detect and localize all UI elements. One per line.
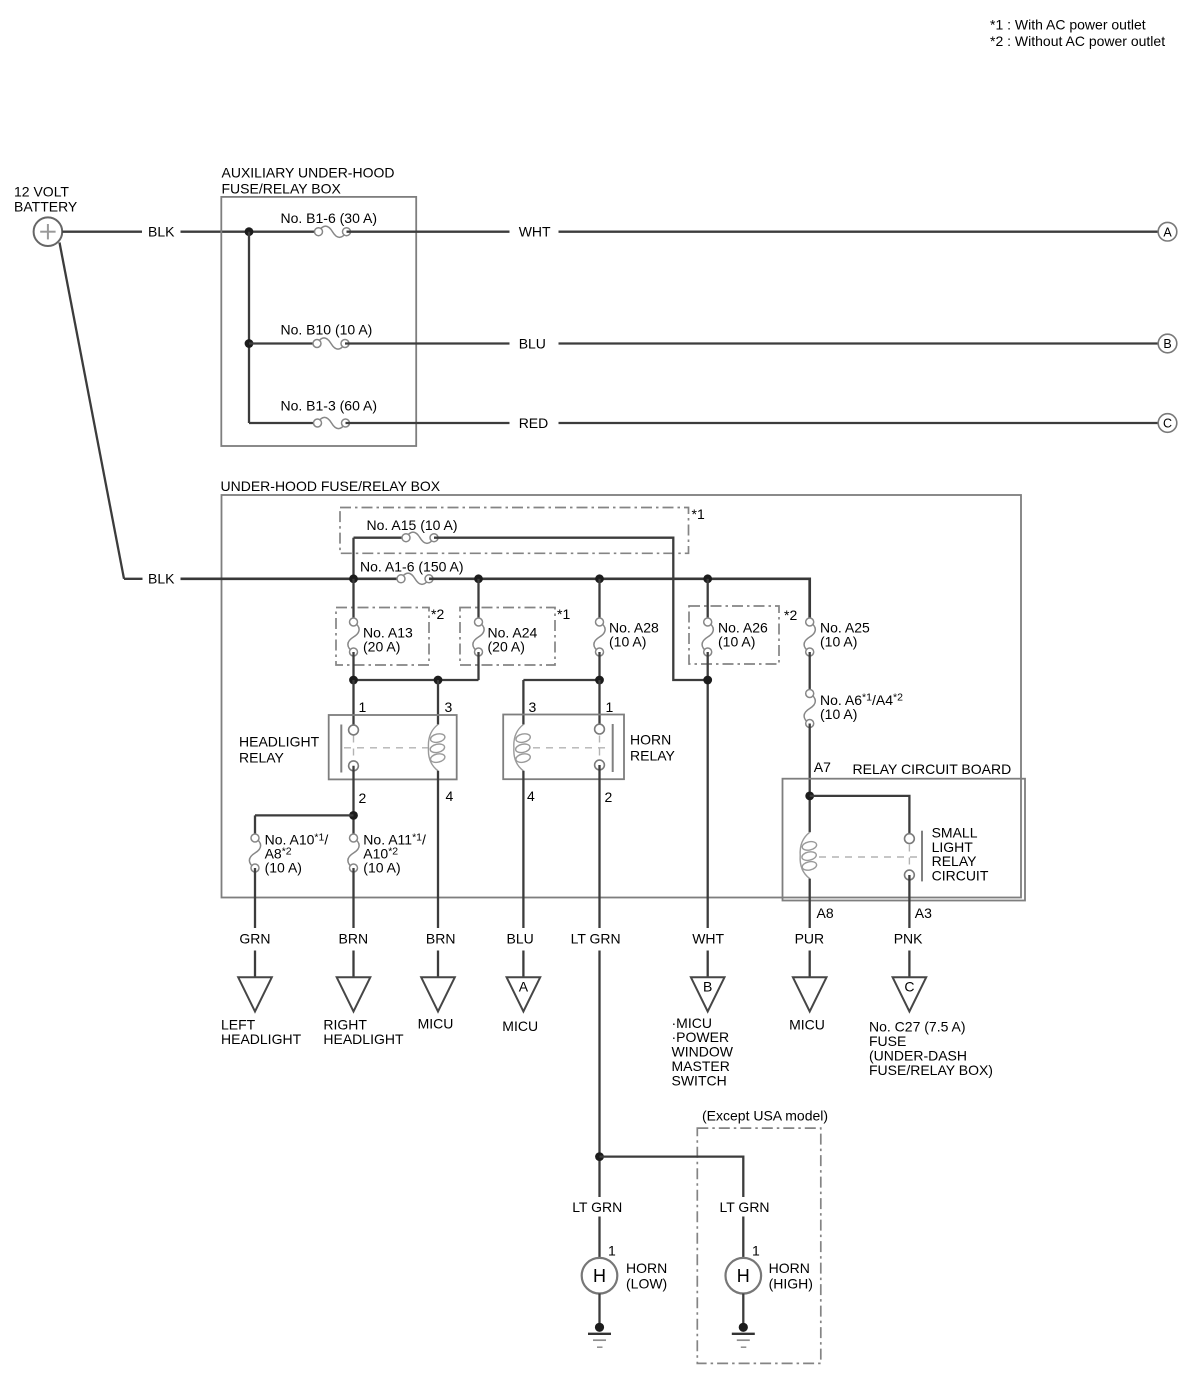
junction dot A7 node bbox=[805, 792, 814, 801]
svg-text:MICU: MICU bbox=[418, 1016, 454, 1032]
svg-text:C: C bbox=[1163, 417, 1172, 431]
battery label bbox=[14, 184, 78, 215]
junction dot horn pin1/A28 bbox=[595, 676, 604, 685]
fuse A1-6 (150 A) bbox=[360, 559, 464, 585]
svg-text:BLU: BLU bbox=[507, 931, 534, 947]
wire contact down PNK bbox=[908, 875, 910, 928]
wire WHT stub to arrow bbox=[707, 951, 709, 979]
wire A28 to horn relay pin 1 node bbox=[598, 652, 600, 680]
svg-text:2: 2 bbox=[605, 789, 613, 805]
wire to horn low bbox=[598, 1217, 600, 1259]
wire PNK stub to arrow bbox=[908, 951, 910, 979]
connector C bbox=[1158, 414, 1177, 433]
relay HORN RELAY bbox=[503, 715, 675, 780]
wire GRN to arrow bbox=[254, 868, 256, 928]
svg-text:FUSE/RELAY BOX: FUSE/RELAY BOX bbox=[222, 181, 342, 197]
svg-text:1: 1 bbox=[359, 699, 367, 715]
svg-text:(Except USA model): (Except USA model) bbox=[702, 1107, 828, 1123]
fuse A28 (10 A) bbox=[594, 579, 659, 656]
wire A15 left lead bbox=[354, 537, 407, 539]
wire horn relay pin 4 down BLU bbox=[522, 771, 524, 928]
svg-text:HEADLIGHT: HEADLIGHT bbox=[323, 1031, 404, 1047]
svg-text:(10 A): (10 A) bbox=[718, 634, 755, 650]
wire color labels row bbox=[239, 931, 923, 947]
arrow MICU (BRN) bbox=[421, 977, 455, 1011]
arrow A MICU (BLU) bbox=[507, 977, 541, 1011]
wire main bus bbox=[429, 577, 810, 580]
svg-text:RED: RED bbox=[519, 415, 549, 431]
junction dot bus at A13 bbox=[349, 574, 358, 583]
wire horn low to ground bbox=[598, 1294, 600, 1328]
junction dot A26/A15 bbox=[703, 676, 712, 685]
wire headlight relay pin 1 bbox=[352, 680, 354, 730]
junction dot horn split bbox=[595, 1152, 604, 1161]
svg-text:4: 4 bbox=[527, 788, 535, 804]
wire to horn high bbox=[742, 1217, 744, 1259]
wire horn relay pin 3 bbox=[522, 680, 524, 725]
fuse A10*1/A8*2 (10 A) bbox=[249, 831, 328, 875]
svg-text:12 VOLT: 12 VOLT bbox=[14, 184, 69, 200]
fuse A13 (20 A) bbox=[348, 579, 413, 656]
svg-text:(HIGH): (HIGH) bbox=[769, 1276, 813, 1292]
svg-text:RELAY: RELAY bbox=[630, 748, 676, 764]
svg-text:2: 2 bbox=[359, 790, 367, 806]
svg-text:*1: *1 bbox=[557, 606, 570, 622]
svg-text:A: A bbox=[1163, 225, 1172, 239]
svg-text:HORN: HORN bbox=[630, 732, 671, 748]
svg-text:RELAY CIRCUIT BOARD: RELAY CIRCUIT BOARD bbox=[853, 761, 1012, 777]
junction dot bus at A28 bbox=[595, 574, 604, 583]
svg-text:WHT: WHT bbox=[692, 931, 724, 947]
wire LT GRN down to horn junction bbox=[598, 951, 600, 1198]
small light relay coil bbox=[800, 832, 817, 878]
svg-text:BRN: BRN bbox=[426, 931, 456, 947]
wire horn relay pin 1 bbox=[598, 680, 600, 730]
wire A15 riser bbox=[352, 538, 354, 579]
svg-text:LT GRN: LT GRN bbox=[720, 1199, 770, 1215]
junction dot battery feed middle bbox=[245, 339, 254, 348]
fuse A25 (10 A) bbox=[804, 618, 870, 656]
wire A25 to A6 bbox=[809, 652, 811, 694]
wire board bridge to contact bbox=[810, 796, 910, 839]
battery 12V bbox=[34, 217, 63, 246]
wire A15 right lead bbox=[434, 538, 708, 680]
wire BRN1 to arrow bbox=[352, 868, 354, 928]
wire BLU stub to arrow bbox=[522, 951, 524, 979]
dash-dot box *1 around fuse A24 bbox=[460, 606, 570, 665]
wire headlight relay pin 4 down BRN2 bbox=[437, 771, 439, 928]
connector B bbox=[1158, 334, 1177, 353]
label RIGHT HEADLIGHT bbox=[323, 1017, 404, 1047]
wire horn relay top bus bbox=[523, 679, 599, 681]
arrow B MICU/power window (WHT) bbox=[691, 977, 725, 1011]
label HORN (LOW) bbox=[626, 1260, 667, 1292]
svg-text:*2: *2 bbox=[431, 606, 444, 622]
svg-text:*2: *2 bbox=[784, 607, 797, 623]
svg-text:H: H bbox=[737, 1266, 750, 1286]
wire WHT to connector A bbox=[559, 231, 1159, 233]
label SMALL LIGHT RELAY CIRCUIT bbox=[932, 825, 989, 884]
wire RED to connector C bbox=[559, 422, 1159, 424]
wire BLK to fuse B1-6 bbox=[181, 231, 319, 233]
svg-text:B: B bbox=[703, 979, 712, 995]
horn HIGH bbox=[726, 1258, 762, 1294]
wire headlight relay pin 2 down bbox=[352, 766, 354, 838]
svg-text:CIRCUIT: CIRCUIT bbox=[932, 867, 989, 883]
fuse A6*1/A4*2 (10 A) bbox=[804, 690, 903, 728]
svg-text:AUXILIARY UNDER-HOOD: AUXILIARY UNDER-HOOD bbox=[222, 165, 395, 181]
wire fuse B10 to BLU label bbox=[345, 342, 510, 344]
junction dot headlight pin1/A13 bbox=[349, 676, 358, 685]
fuse A24 (20 A) bbox=[473, 579, 538, 656]
svg-text:UNDER-HOOD FUSE/RELAY BOX: UNDER-HOOD FUSE/RELAY BOX bbox=[221, 478, 441, 494]
svg-text:LT GRN: LT GRN bbox=[571, 931, 621, 947]
svg-text:BLU: BLU bbox=[519, 336, 546, 352]
wire BLU to connector B bbox=[559, 342, 1159, 344]
junction dot bus at A26 bbox=[703, 574, 712, 583]
fuse A15 (10 A) bbox=[367, 517, 458, 543]
svg-text:PUR: PUR bbox=[795, 931, 825, 947]
small light relay contact bbox=[819, 831, 922, 882]
svg-text:No. B10 (10 A): No. B10 (10 A) bbox=[281, 322, 373, 338]
svg-text:No. A1-6 (150 A): No. A1-6 (150 A) bbox=[360, 559, 464, 575]
svg-text:HEADLIGHT: HEADLIGHT bbox=[221, 1031, 302, 1047]
wire A6 down to relay circuit board bbox=[809, 724, 811, 833]
svg-text:A8: A8 bbox=[817, 905, 834, 921]
svg-text:SWITCH: SWITCH bbox=[672, 1072, 727, 1088]
label HORN (HIGH) bbox=[769, 1260, 813, 1292]
ground (horn low) bbox=[588, 1323, 611, 1347]
wire fuse B1-6 to WHT label bbox=[347, 231, 510, 233]
wire bus corner down to A25 bbox=[808, 578, 811, 623]
svg-text:BATTERY: BATTERY bbox=[14, 199, 78, 215]
fuse A11*1/A10*2 (10 A) bbox=[348, 831, 426, 875]
svg-text:(10 A): (10 A) bbox=[265, 860, 302, 876]
svg-text:3: 3 bbox=[529, 699, 537, 715]
svg-text:A3: A3 bbox=[915, 905, 932, 921]
LEGEND bbox=[990, 17, 1165, 49]
svg-text:MICU: MICU bbox=[502, 1018, 538, 1034]
wire diagonal elbow to BLK label bbox=[124, 578, 143, 580]
svg-text:WHT: WHT bbox=[519, 224, 551, 240]
fuse B10 (10 A) bbox=[249, 322, 372, 350]
svg-text:*1: *1 bbox=[692, 506, 705, 522]
arrow MICU (PUR) bbox=[793, 977, 827, 1011]
horn LOW bbox=[582, 1258, 618, 1294]
label LEFT HEADLIGHT bbox=[221, 1017, 302, 1047]
wire battery diagonal bbox=[60, 243, 125, 579]
svg-text:HEADLIGHT: HEADLIGHT bbox=[239, 734, 320, 750]
wire horn split horizontal bbox=[600, 1157, 744, 1197]
svg-text:1: 1 bbox=[608, 1243, 616, 1259]
svg-text:4: 4 bbox=[446, 788, 454, 804]
arrow LEFT HEADLIGHT bbox=[238, 977, 272, 1011]
wire headlight relay pin 3 bbox=[437, 680, 439, 725]
svg-text:*1 : With AC power outlet: *1 : With AC power outlet bbox=[990, 17, 1146, 33]
fuse A26 (10 A) bbox=[702, 579, 768, 656]
svg-text:3: 3 bbox=[445, 699, 453, 715]
svg-text:No. B1-6 (30 A): No. B1-6 (30 A) bbox=[281, 210, 378, 226]
svg-text:PNK: PNK bbox=[894, 931, 923, 947]
wire GRN branch vertical bbox=[254, 815, 256, 838]
arrow C fuse C27 (PNK) bbox=[893, 977, 927, 1011]
wire horn high to ground bbox=[742, 1294, 744, 1328]
svg-text:(10 A): (10 A) bbox=[609, 634, 646, 650]
svg-text:HORN: HORN bbox=[626, 1260, 667, 1276]
dash-dot box *1 around fuse A15 bbox=[340, 506, 705, 553]
wire horn relay pin 2 down LT GRN bbox=[598, 765, 600, 928]
wire headlight relay top bus bbox=[354, 679, 479, 681]
svg-text:*2 : Without AC power outlet: *2 : Without AC power outlet bbox=[990, 33, 1165, 49]
svg-text:C: C bbox=[904, 979, 914, 995]
wire fuse B1-3 to RED label bbox=[346, 422, 510, 424]
wire coil down PUR bbox=[809, 879, 811, 928]
svg-text:(20 A): (20 A) bbox=[363, 639, 400, 655]
wire vertical feed inside aux box bbox=[248, 232, 250, 423]
dash-dot box *2 around fuse A13 bbox=[336, 606, 444, 665]
svg-text:FUSE/RELAY BOX): FUSE/RELAY BOX) bbox=[869, 1062, 993, 1078]
wire BRN2 stub to arrow bbox=[437, 951, 439, 979]
svg-text:(10 A): (10 A) bbox=[363, 860, 400, 876]
junction dot headlight pin3 bbox=[434, 676, 443, 685]
wire PUR stub to arrow bbox=[809, 951, 811, 979]
wire A26 down to WHT bbox=[707, 652, 709, 928]
relay HEADLIGHT RELAY bbox=[239, 715, 457, 779]
box AUXILIARY UNDER-HOOD FUSE/RELAY BOX bbox=[221, 165, 416, 447]
dash-dot box Except USA model bbox=[697, 1128, 821, 1363]
svg-text:BRN: BRN bbox=[339, 931, 369, 947]
svg-text:MICU: MICU bbox=[789, 1017, 825, 1033]
connector A bbox=[1158, 222, 1177, 241]
svg-text:BLK: BLK bbox=[148, 571, 175, 587]
svg-text:1: 1 bbox=[752, 1243, 760, 1259]
svg-text:GRN: GRN bbox=[239, 931, 270, 947]
svg-text:(LOW): (LOW) bbox=[626, 1276, 667, 1292]
wire A24 to relay bus bbox=[477, 652, 479, 680]
svg-text:BLK: BLK bbox=[148, 224, 175, 240]
fuse B1-6 (30 A) bbox=[281, 210, 378, 237]
svg-text:A7: A7 bbox=[814, 759, 831, 775]
wire GRN branch horizontal bbox=[255, 814, 354, 816]
svg-text:A: A bbox=[519, 979, 529, 995]
wire BRN1 stub to arrow bbox=[352, 951, 354, 979]
label No. C27 fuse bbox=[869, 1019, 993, 1078]
ground (horn high) bbox=[732, 1323, 755, 1347]
junction dot battery feed top bbox=[245, 227, 254, 236]
svg-text:(10 A): (10 A) bbox=[820, 634, 857, 650]
box UNDER-HOOD FUSE/RELAY BOX bbox=[221, 478, 1022, 898]
svg-text:No. A15 (10 A): No. A15 (10 A) bbox=[367, 517, 458, 533]
arrow RIGHT HEADLIGHT bbox=[337, 977, 371, 1011]
junction dot pin2/GRN branch bbox=[349, 811, 358, 820]
junction dot bus at A24 bbox=[474, 574, 483, 583]
dash-dot box *2 around fuse A26 bbox=[689, 606, 797, 664]
wire battery to BLK label bbox=[62, 231, 142, 233]
fuse B1-3 (60 A) bbox=[249, 398, 377, 429]
svg-text:HORN: HORN bbox=[769, 1260, 810, 1276]
svg-text:No. B1-3 (60 A): No. B1-3 (60 A) bbox=[281, 398, 378, 414]
svg-text:1: 1 bbox=[606, 699, 614, 715]
wire bus BLK into box bbox=[181, 577, 402, 580]
svg-text:LT GRN: LT GRN bbox=[572, 1199, 622, 1215]
label MICU POWER WINDOW MASTER SWITCH bbox=[672, 1015, 734, 1089]
svg-text:(20 A): (20 A) bbox=[488, 639, 525, 655]
svg-text:H: H bbox=[593, 1266, 606, 1286]
wire GRN stub to arrow bbox=[254, 951, 256, 979]
svg-text:(10 A): (10 A) bbox=[820, 706, 857, 722]
box RELAY CIRCUIT BOARD bbox=[783, 761, 1026, 901]
wire A13 to relay bus bbox=[352, 652, 354, 680]
svg-text:RELAY: RELAY bbox=[239, 750, 285, 766]
svg-text:B: B bbox=[1163, 337, 1171, 351]
